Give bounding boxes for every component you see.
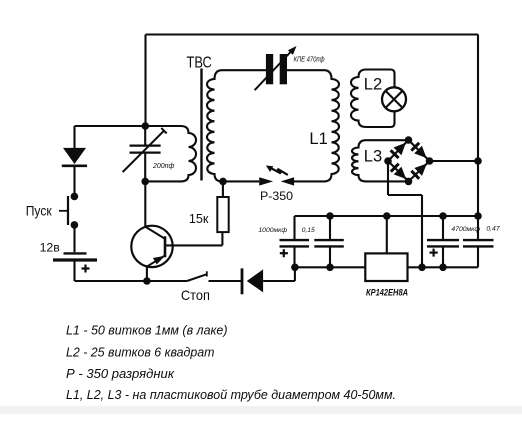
node: button SB1 lower terminal bbox=[71, 221, 79, 229]
svg-text:0,15: 0,15 bbox=[302, 227, 315, 234]
bridge rectifier edge T-R bbox=[409, 140, 430, 161]
wire: trimmer to collector junction bbox=[144, 154, 146, 182]
wire: switch to diode bbox=[209, 280, 242, 282]
transformer T1 core bbox=[200, 69, 202, 181]
node: emitter junction on bottom rail bbox=[143, 277, 151, 285]
label 12в bbox=[40, 240, 60, 254]
switch SA1 Стоп bbox=[187, 271, 207, 281]
svg-text:ТВС: ТВС bbox=[187, 54, 212, 71]
resistor R1 15к bbox=[217, 197, 228, 232]
svg-text:1000мкф: 1000мкф bbox=[258, 227, 287, 234]
lamp HL1 bbox=[382, 87, 406, 111]
wire: regulator input from upper bus bbox=[386, 216, 388, 253]
svg-text:L1 - 50 витков 1мм (в лаке): L1 - 50 витков 1мм (в лаке) bbox=[66, 324, 228, 338]
wire: emitter to bottom rail bbox=[146, 266, 148, 282]
node: C2 upper junction bbox=[326, 212, 334, 220]
node: right vertical junction bbox=[474, 157, 482, 165]
bridge rectifier edge L-B bbox=[388, 161, 409, 181]
svg-text:Стоп: Стоп bbox=[181, 287, 210, 303]
wire: diode cathode to start button bbox=[73, 167, 75, 197]
bridge rectifier edge L-T bbox=[388, 140, 409, 161]
label Пуск bbox=[26, 202, 53, 218]
svg-text:КР142ЕН8А: КР142ЕН8А bbox=[366, 288, 408, 298]
node: secondary bottom junction bbox=[219, 178, 227, 186]
node: collector junction bbox=[141, 178, 149, 186]
wire: upper bus bbox=[295, 215, 479, 217]
label 15к bbox=[189, 212, 209, 226]
node: bridge top bbox=[405, 136, 413, 144]
voltage regulator DA1 КР142ЕН8А bbox=[365, 253, 407, 281]
spark gap FV1 Р-350 electrodes bbox=[259, 177, 294, 185]
wire: battery negative to bottom rail bbox=[75, 262, 147, 282]
svg-text:0,47: 0,47 bbox=[486, 225, 499, 232]
node: C1 lower junction bbox=[291, 264, 299, 272]
label 0,15 bbox=[302, 227, 315, 234]
battery GB1 12в bbox=[53, 253, 97, 260]
svg-text:L2 - 25 витков 6 квадрат: L2 - 25 витков 6 квадрат bbox=[66, 345, 215, 359]
transistor VT1 emitter lead with arrow bbox=[148, 256, 166, 267]
label L2 bbox=[364, 76, 382, 94]
spark gap lightning arrow bbox=[266, 166, 288, 175]
label L3 bbox=[364, 147, 382, 165]
note line 2 bbox=[66, 345, 215, 359]
wire: secondary bottom to spark gap bbox=[224, 180, 259, 182]
note line 3 bbox=[66, 367, 175, 381]
note line 1 bbox=[66, 324, 228, 338]
svg-text:L1: L1 bbox=[309, 130, 327, 148]
svg-text:4700мкф: 4700мкф bbox=[451, 226, 480, 233]
svg-text:L2: L2 bbox=[364, 76, 382, 94]
wire: right vertical from top rail bbox=[477, 35, 479, 217]
capacitor C3 plus sign bbox=[430, 249, 438, 257]
trimmer capacitor 200пф bbox=[123, 128, 167, 172]
svg-text:12в: 12в bbox=[40, 240, 60, 254]
variable capacitor КПЕ 470пф plates bbox=[266, 54, 287, 84]
label КР142ЕН8А bbox=[366, 288, 408, 298]
pushbutton SB1 Пуск bbox=[59, 196, 68, 225]
label 1000мкф bbox=[258, 227, 287, 234]
label КПЕ 470пф bbox=[294, 54, 325, 63]
svg-text:Р - 350 разрядник: Р - 350 разрядник bbox=[66, 367, 175, 381]
wire: junction to diode branch bbox=[75, 126, 146, 149]
label 4700мкф bbox=[451, 226, 480, 233]
bridge diode VD2 (top to right) bbox=[411, 143, 426, 158]
node: C4 upper junction bbox=[474, 212, 482, 220]
svg-text:L1, L2, L3 - на пластиковой тр: L1, L2, L3 - на пластиковой трубе диамет… bbox=[66, 388, 396, 402]
battery plus sign bbox=[82, 265, 90, 273]
diode VD6 cathode bar bbox=[241, 268, 244, 294]
node: lower bus junction at bridge wire bbox=[418, 264, 426, 272]
label L1 bbox=[309, 130, 327, 148]
diode VD6 body bbox=[247, 269, 263, 292]
variable capacitor КПЕ arrow bbox=[255, 46, 297, 90]
wire: resistor top to secondary junction bbox=[222, 181, 224, 197]
wire: top horizontal rail bbox=[146, 33, 479, 35]
wire: button to battery bbox=[73, 225, 75, 252]
wire: junction down to trimmer bbox=[144, 126, 146, 145]
capacitor C4 0,47 bbox=[463, 216, 494, 267]
svg-text:Пуск: Пуск bbox=[26, 202, 53, 218]
capacitor C1 plus sign bbox=[280, 249, 288, 257]
bridge diode VD4 (bottom to right) bbox=[411, 164, 426, 179]
node: C3 upper junction bbox=[439, 212, 447, 220]
diode VD5 bbox=[62, 148, 87, 166]
label 200пф bbox=[152, 163, 175, 170]
coil L2 loop bbox=[351, 70, 395, 128]
node: bridge bottom bbox=[405, 178, 413, 186]
coil L3 loop bbox=[352, 140, 409, 181]
capacitor C1 1000мкф bbox=[280, 216, 310, 267]
svg-text:Р-350: Р-350 bbox=[260, 189, 293, 203]
wire: collector bbox=[144, 181, 146, 226]
wire: diode to lower-right bus bbox=[263, 267, 295, 281]
node: bridge right bbox=[426, 157, 434, 165]
wire: base to resistor bbox=[165, 232, 222, 245]
wire: bottom rail to stop switch bbox=[147, 280, 187, 282]
node: top-left junction bbox=[142, 122, 150, 130]
wire: bridge left output down to bottom bus bbox=[388, 161, 422, 267]
transformer T1 primary winding bbox=[145, 126, 196, 181]
coil T1 secondary / L1 left winding bbox=[207, 70, 266, 181]
bridge diode VD3 (left to bottom) bbox=[391, 164, 406, 179]
node: C2 lower junction bbox=[326, 264, 334, 272]
wire: lower bus bbox=[295, 266, 478, 268]
bridge rectifier edge B-R bbox=[409, 161, 430, 181]
svg-text:L3: L3 bbox=[364, 147, 382, 165]
capacitor C2 0,15 bbox=[314, 216, 344, 267]
svg-text:15к: 15к bbox=[189, 212, 209, 226]
transistor VT1 base bar bbox=[164, 236, 167, 257]
label 0,47 bbox=[486, 225, 499, 232]
note line 4 bbox=[66, 388, 396, 402]
bridge diode VD1 (left to top) bbox=[391, 143, 406, 158]
label ТВС bbox=[187, 54, 212, 71]
node: regulator input junction bbox=[383, 212, 391, 220]
label Р-350 bbox=[260, 189, 293, 203]
node: C3 lower junction bbox=[439, 264, 447, 272]
node: button SB1 upper terminal bbox=[71, 193, 79, 201]
transistor VT1 body bbox=[131, 226, 172, 267]
capacitor C3 4700мкф bbox=[427, 216, 459, 267]
node: bridge left bbox=[384, 157, 392, 165]
coil L1 right winding bbox=[287, 70, 339, 181]
wire: left vertical from top rail bbox=[144, 35, 146, 127]
svg-text:КПЕ 470пф: КПЕ 470пф bbox=[294, 54, 325, 63]
wire: bridge right output to right vertical bbox=[430, 160, 479, 162]
transistor VT1 collector lead bbox=[146, 227, 165, 239]
svg-text:200пф: 200пф bbox=[152, 163, 175, 170]
label Стоп bbox=[181, 287, 210, 303]
